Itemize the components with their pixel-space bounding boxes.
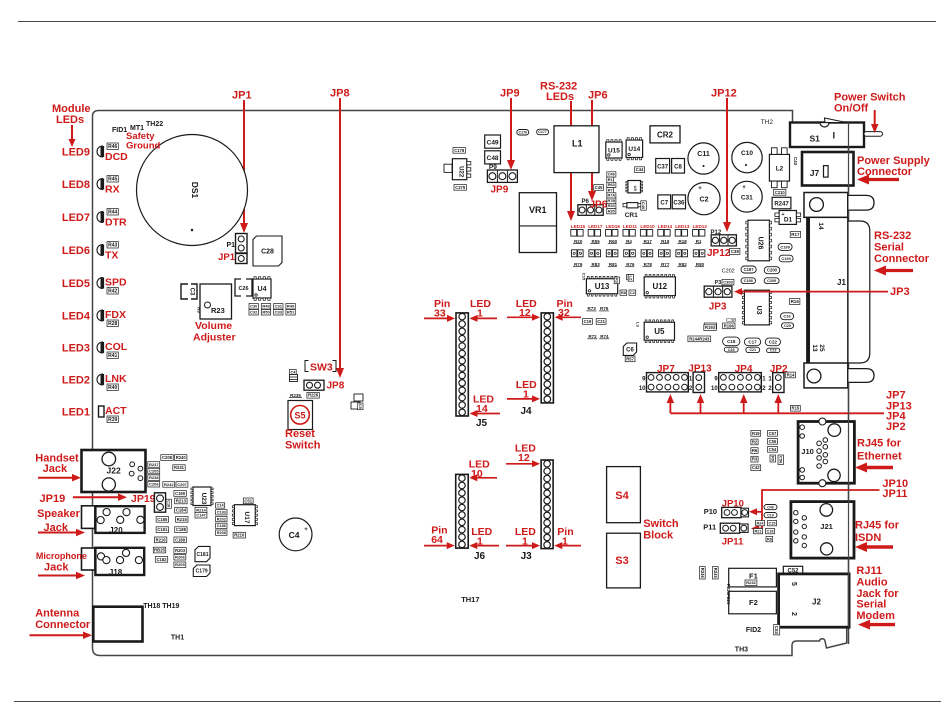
svg-text:SPD: SPD	[105, 277, 127, 289]
svg-text:C18: C18	[727, 339, 736, 344]
svg-text:Jack: Jack	[44, 562, 69, 574]
svg-text:R17: R17	[644, 239, 653, 244]
connector antenna	[93, 607, 142, 642]
svg-text:C57: C57	[769, 431, 777, 436]
connector J1 jack screw bottom	[848, 369, 874, 383]
svg-text:SW3: SW3	[310, 362, 333, 374]
svg-text:JP9: JP9	[491, 185, 509, 196]
svg-text:J4: J4	[521, 406, 533, 417]
svg-text:JP11: JP11	[882, 488, 907, 500]
svg-text:Adjuster: Adjuster	[193, 332, 236, 344]
svg-text:Block: Block	[643, 530, 674, 542]
header JP19	[154, 493, 165, 512]
svg-text:LED3: LED3	[62, 343, 90, 355]
IC U12	[644, 277, 675, 296]
svg-text:D1: D1	[784, 217, 793, 224]
svg-text:L1: L1	[572, 139, 583, 149]
svg-text:Microphone: Microphone	[36, 551, 87, 561]
svg-text:Audio: Audio	[856, 577, 887, 589]
capacitor C11	[688, 143, 719, 174]
svg-text:R203: R203	[175, 548, 186, 553]
IC U26	[748, 220, 770, 261]
capacitor C49	[485, 135, 501, 148]
svg-text:R73: R73	[587, 306, 596, 311]
svg-text:R14: R14	[787, 372, 795, 377]
svg-text:C40: C40	[641, 202, 646, 210]
svg-text:R3: R3	[752, 457, 758, 462]
capacitor C2	[688, 183, 720, 215]
svg-text:TH22: TH22	[146, 121, 163, 128]
resistor R247	[772, 197, 791, 209]
svg-text:C183: C183	[217, 511, 226, 515]
capacitor C4	[279, 518, 312, 551]
svg-text:VR1: VR1	[529, 205, 547, 215]
resistor row under U4	[249, 304, 258, 310]
svg-text:L3: L3	[636, 322, 641, 327]
svg-text:C375: C375	[455, 185, 466, 190]
capacitor C177	[537, 129, 549, 135]
capacitor C23	[767, 348, 780, 352]
svg-text:C207: C207	[177, 482, 187, 487]
arrow to microphone jack	[38, 575, 76, 577]
svg-text:5: 5	[790, 582, 797, 586]
svg-text:TH2: TH2	[761, 119, 774, 126]
svg-text:R41: R41	[108, 353, 117, 359]
svg-text:FDX: FDX	[105, 309, 126, 321]
svg-text:R75: R75	[600, 306, 609, 311]
svg-text:R9: R9	[197, 307, 202, 313]
svg-text:Jack: Jack	[43, 463, 68, 475]
svg-text:C209: C209	[767, 279, 776, 283]
svg-text:R242: R242	[164, 482, 174, 487]
capacitor C197	[741, 266, 756, 273]
capacitor C18	[723, 337, 740, 346]
svg-text:LEDs: LEDs	[546, 91, 574, 103]
svg-text:R48: R48	[262, 304, 270, 309]
IC U17	[234, 505, 255, 526]
svg-text:C43: C43	[793, 157, 798, 166]
svg-text:C200: C200	[767, 268, 778, 273]
svg-text:RJ45 for: RJ45 for	[857, 438, 902, 450]
svg-text:JP4: JP4	[735, 364, 753, 375]
RS-232 LED diode row	[572, 250, 577, 257]
svg-text:C188: C188	[176, 527, 187, 532]
svg-text:J18: J18	[109, 568, 123, 577]
svg-text:U23: U23	[200, 493, 207, 505]
IC U13	[586, 279, 617, 294]
speaker DS1	[137, 135, 248, 246]
svg-text:TH18 TH19: TH18 TH19	[143, 603, 179, 610]
svg-text:Switch: Switch	[285, 440, 321, 452]
capacitor C38 label	[730, 248, 740, 254]
svg-text:C45: C45	[595, 185, 603, 190]
svg-text:L2: L2	[776, 166, 784, 173]
svg-text:R19: R19	[661, 239, 670, 244]
svg-text:C42: C42	[752, 465, 760, 470]
svg-text:C21: C21	[597, 319, 605, 324]
capacitor C31	[731, 181, 762, 212]
svg-text:S3: S3	[615, 555, 628, 567]
resistor R246	[700, 567, 706, 579]
svg-text:S5: S5	[294, 410, 305, 420]
svg-text:U17: U17	[243, 512, 250, 524]
refs left of J10	[751, 431, 761, 437]
svg-text:C147: C147	[196, 513, 206, 518]
svg-text:JP12: JP12	[711, 88, 737, 100]
svg-text:J2: J2	[812, 598, 821, 607]
svg-text:P10: P10	[704, 507, 717, 516]
svg-text:C17: C17	[748, 340, 757, 345]
svg-text:TX: TX	[105, 250, 118, 262]
connector J1 body	[807, 217, 848, 365]
capacitor C40	[641, 201, 647, 210]
svg-text:DS1: DS1	[190, 182, 200, 199]
svg-text:Ethernet: Ethernet	[857, 451, 902, 463]
capacitor C37	[656, 159, 670, 174]
svg-text:R1: R1	[696, 239, 702, 244]
svg-text:U13: U13	[595, 282, 610, 291]
arrow to JP19	[73, 496, 118, 498]
connector J1 D-shell	[848, 221, 870, 363]
switch S3	[607, 533, 641, 588]
header JP2	[773, 373, 784, 393]
svg-text:R1: R1	[608, 178, 613, 182]
svg-text:U26: U26	[757, 237, 764, 250]
svg-text:C55: C55	[769, 439, 777, 444]
connector J1 jack screw top	[848, 195, 874, 210]
svg-text:R193: R193	[705, 325, 716, 330]
header JP8	[304, 380, 324, 390]
svg-text:C44: C44	[636, 167, 644, 172]
svg-text:C193: C193	[781, 256, 791, 261]
svg-text:C19: C19	[728, 348, 735, 352]
arrow to speaker jack	[38, 532, 76, 534]
svg-text:JP8: JP8	[327, 381, 345, 392]
svg-text:C189: C189	[175, 537, 186, 542]
svg-text:25: 25	[818, 344, 825, 352]
svg-text:C11: C11	[697, 151, 710, 158]
svg-text:Volume: Volume	[195, 320, 232, 332]
connector J7 power supply	[802, 152, 854, 186]
svg-text:R49: R49	[287, 304, 295, 309]
svg-text:R238: R238	[149, 475, 159, 480]
svg-text:R247: R247	[774, 202, 789, 208]
capacitor C3 bracket	[181, 284, 188, 299]
svg-text:C36: C36	[673, 201, 685, 207]
svg-text:R45: R45	[108, 177, 117, 183]
connector J20 speaker jack	[82, 506, 95, 529]
svg-text:R237: R237	[149, 462, 159, 467]
svg-text:R245: R245	[713, 568, 718, 579]
svg-text:R60: R60	[609, 239, 618, 244]
svg-text:JP2: JP2	[770, 364, 788, 375]
svg-text:TH1: TH1	[171, 635, 184, 642]
capacitor C6	[623, 343, 636, 355]
svg-text:R206: R206	[175, 555, 185, 560]
svg-text:C15: C15	[769, 521, 776, 525]
svg-text:R80: R80	[696, 262, 705, 267]
capacitor C181 big	[195, 546, 210, 561]
svg-text:Connector: Connector	[35, 619, 91, 631]
svg-text:R226: R226	[308, 393, 319, 398]
capacitor C8 small	[290, 370, 297, 375]
connector J3 pin header	[541, 460, 553, 549]
svg-text:C31: C31	[741, 195, 753, 202]
diode CR1	[627, 203, 638, 208]
RS-232 LED component row	[571, 230, 577, 237]
arrow to antenna connector	[30, 634, 84, 636]
svg-text:DTR: DTR	[105, 217, 127, 229]
svg-text:R246: R246	[700, 568, 705, 579]
transistor Q near JP8	[354, 394, 363, 401]
IC U14	[626, 140, 643, 158]
reset switch S5	[288, 401, 313, 430]
svg-text:R63: R63	[608, 183, 615, 187]
svg-text:R76: R76	[626, 262, 635, 267]
svg-text:LED14: LED14	[658, 224, 673, 229]
svg-text:C202: C202	[722, 269, 735, 275]
svg-text:R8: R8	[621, 291, 626, 295]
svg-text:U15: U15	[608, 147, 620, 154]
svg-text:+: +	[698, 186, 702, 192]
arrow to J7	[869, 178, 899, 181]
svg-text:LED7: LED7	[62, 212, 90, 224]
svg-text:C53: C53	[774, 626, 779, 635]
capacitor C209	[764, 278, 779, 284]
switch S4	[607, 467, 641, 523]
svg-text:Reset: Reset	[285, 428, 315, 440]
svg-text:R82: R82	[678, 262, 687, 267]
svg-text:C40: C40	[767, 505, 774, 509]
arrow to J21	[867, 545, 893, 548]
svg-text:R40: R40	[108, 385, 117, 391]
svg-text:R33: R33	[608, 204, 615, 208]
svg-text:U9: U9	[633, 186, 638, 192]
svg-text:R244R243: R244R243	[689, 336, 710, 341]
potentiometer R23 volume adjuster	[200, 284, 232, 319]
svg-text:C2: C2	[630, 291, 635, 295]
svg-text:C18: C18	[767, 529, 774, 533]
svg-text:R23: R23	[211, 306, 225, 315]
svg-text:J7: J7	[810, 168, 820, 178]
svg-text:LED16: LED16	[606, 224, 621, 229]
svg-text:FB23FB24: FB23FB24	[726, 584, 731, 605]
fuse F1	[729, 568, 777, 587]
capacitor C176	[517, 130, 529, 136]
svg-text:JP1: JP1	[218, 252, 236, 263]
svg-text:J3: J3	[521, 551, 533, 562]
svg-text:C28: C28	[261, 249, 274, 256]
svg-text:JP19: JP19	[131, 493, 156, 505]
svg-text:C176: C176	[519, 131, 528, 135]
svg-text:R79: R79	[574, 262, 583, 267]
capacitor C52	[783, 566, 802, 574]
svg-text:JP6: JP6	[590, 200, 608, 211]
capacitor C53	[774, 625, 780, 635]
svg-text:C181: C181	[157, 527, 168, 532]
svg-text:14: 14	[817, 222, 824, 230]
callout line JP10 JP11	[762, 490, 880, 529]
svg-text:2: 2	[790, 612, 797, 616]
svg-text:J20: J20	[109, 526, 123, 535]
svg-text:R28: R28	[108, 321, 117, 327]
svg-text:C303: C303	[723, 280, 733, 285]
svg-text:R57: R57	[626, 356, 634, 361]
svg-text:Connector: Connector	[874, 253, 930, 265]
svg-text:C56: C56	[778, 456, 783, 464]
svg-text:R240: R240	[176, 455, 187, 460]
svg-text:R81: R81	[609, 262, 618, 267]
svg-text:LED13: LED13	[675, 224, 690, 229]
svg-text:R210: R210	[234, 533, 245, 538]
svg-text:LED6: LED6	[62, 245, 90, 257]
svg-text:R8: R8	[767, 537, 772, 541]
svg-text:C21: C21	[749, 348, 756, 352]
svg-text:J5: J5	[476, 418, 488, 429]
svg-text:C197: C197	[744, 267, 755, 272]
svg-text:R9: R9	[770, 456, 775, 462]
svg-text:R55: R55	[591, 239, 600, 244]
svg-text:J6: J6	[474, 551, 486, 562]
svg-text:64: 64	[431, 534, 443, 546]
svg-text:C31: C31	[275, 304, 283, 309]
callout lines JP7 JP13 JP4 JP2	[670, 412, 884, 414]
capacitor C26 bracket	[235, 279, 241, 296]
svg-text:R83: R83	[591, 262, 600, 267]
svg-text:JP1: JP1	[232, 90, 252, 102]
svg-text:U12: U12	[652, 282, 667, 291]
capacitor C8	[672, 159, 685, 174]
capacitor C19	[724, 347, 738, 352]
svg-text:Speaker: Speaker	[37, 508, 81, 520]
svg-text:JP2: JP2	[886, 421, 906, 433]
svg-text:RX: RX	[105, 184, 120, 196]
page bottom rule	[14, 701, 941, 703]
svg-text:13: 13	[811, 344, 818, 352]
svg-text:C7: C7	[660, 201, 668, 207]
svg-text:P11: P11	[703, 522, 716, 531]
connector J22 handset jack	[82, 450, 146, 492]
svg-text:+: +	[304, 527, 308, 533]
svg-text:R241: R241	[174, 465, 185, 470]
capacitor C16	[781, 313, 794, 320]
refs cluster right of J22	[161, 455, 173, 461]
svg-text:C181: C181	[197, 552, 209, 558]
svg-text:C185: C185	[157, 517, 168, 522]
IC U3	[744, 290, 769, 325]
capacitor C28	[253, 236, 282, 266]
svg-text:LNK: LNK	[105, 373, 127, 385]
svg-text:R6: R6	[752, 448, 758, 453]
svg-text:C3: C3	[189, 288, 195, 296]
svg-text:LED11: LED11	[623, 224, 637, 229]
svg-text:RJ11: RJ11	[856, 565, 882, 577]
svg-text:Serial: Serial	[874, 241, 904, 253]
svg-text:C37: C37	[657, 165, 669, 171]
svg-text:JP7: JP7	[657, 364, 675, 375]
switch S1 power	[790, 123, 864, 148]
svg-text:S4: S4	[615, 490, 629, 502]
fuse F2	[729, 591, 777, 614]
svg-text:P3: P3	[715, 280, 722, 286]
svg-text:On/Off: On/Off	[834, 103, 869, 115]
diode D1	[779, 211, 796, 225]
svg-text:C9: C9	[358, 404, 362, 409]
svg-text:C205: C205	[149, 468, 159, 473]
svg-text:R50: R50	[262, 310, 270, 315]
capacitor C10	[732, 142, 762, 172]
arrow to S1 actuator	[874, 110, 876, 124]
svg-text:LED10: LED10	[640, 224, 655, 229]
svg-text:10: 10	[711, 386, 718, 392]
svg-text:C19: C19	[767, 513, 774, 517]
svg-text:LED17: LED17	[588, 224, 603, 229]
svg-text:JP3: JP3	[890, 286, 910, 298]
svg-text:Antenna: Antenna	[35, 608, 80, 620]
svg-text:C6: C6	[626, 347, 634, 353]
svg-text:R16: R16	[791, 299, 800, 304]
svg-text:LEDs: LEDs	[56, 114, 84, 126]
svg-text:Ground: Ground	[126, 141, 160, 152]
svg-text:RB25: RB25	[154, 548, 165, 553]
svg-text:10: 10	[639, 386, 646, 392]
capacitor C36	[672, 195, 685, 209]
svg-text:R74: R74	[600, 334, 609, 339]
small parts between U13 and U12	[614, 277, 619, 284]
svg-text:JP13: JP13	[688, 364, 712, 375]
svg-text:C18: C18	[167, 500, 171, 507]
capacitor C178	[453, 148, 465, 154]
svg-text:C182: C182	[156, 557, 167, 562]
connector J10 RJ45 ethernet	[798, 422, 854, 484]
svg-text:R7B: R7B	[607, 199, 615, 203]
IC U4	[253, 279, 271, 298]
svg-text:ISDN: ISDN	[855, 532, 881, 544]
svg-text:R2: R2	[752, 439, 758, 444]
connector J2 RJ11	[779, 574, 850, 627]
small ref stack right of JP6	[607, 172, 616, 177]
resistor R195	[704, 323, 716, 329]
svg-text:R19: R19	[752, 431, 760, 436]
IC U15	[606, 142, 622, 158]
capacitor C210	[774, 190, 786, 196]
svg-text:R18: R18	[678, 239, 687, 244]
svg-text:R20: R20	[574, 239, 583, 244]
connector J1 mount top	[804, 193, 848, 218]
svg-text:COL: COL	[105, 341, 128, 353]
svg-text:LED5: LED5	[62, 278, 90, 290]
svg-text:C46: C46	[608, 173, 615, 177]
svg-text:C178: C178	[454, 148, 465, 153]
switch SW3 label	[305, 361, 309, 372]
svg-text:RS-232: RS-232	[874, 230, 911, 242]
svg-text:R4: R4	[626, 239, 632, 244]
svg-text:CR2: CR2	[657, 131, 674, 140]
svg-text:Modem: Modem	[856, 610, 895, 622]
svg-text:R213: R213	[176, 498, 187, 503]
svg-text:R24: R24	[757, 521, 765, 525]
svg-text:R72: R72	[588, 334, 597, 339]
arrow to J2	[870, 623, 895, 626]
svg-text:C199: C199	[780, 244, 790, 249]
svg-text:U4: U4	[258, 286, 267, 293]
arrow to J1	[886, 269, 913, 272]
capacitor C22	[765, 338, 780, 346]
svg-text:L2: L2	[629, 276, 633, 280]
svg-text:ACT: ACT	[105, 405, 127, 417]
capacitor C199	[778, 243, 792, 250]
page top rule	[18, 21, 936, 23]
